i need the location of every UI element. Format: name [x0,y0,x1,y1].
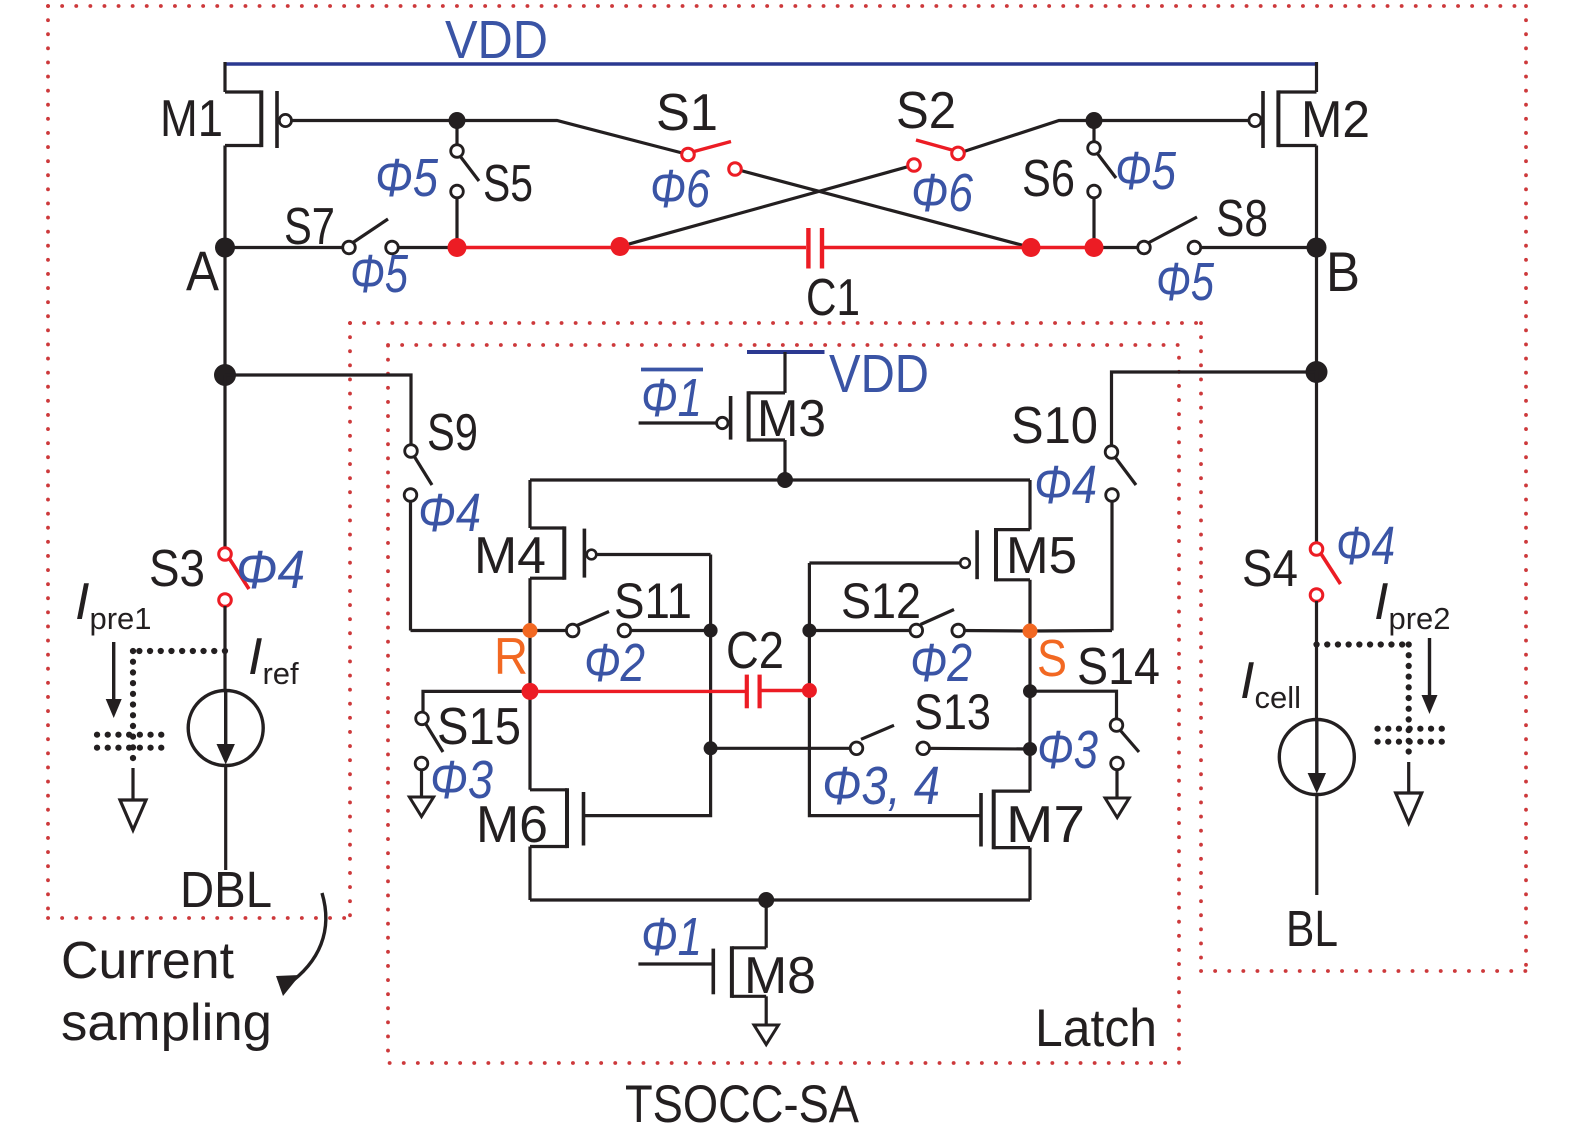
wire red C1 right segment [824,246,1094,250]
wire M1 source-drain column (VDD to node A to node A2) [223,62,226,92]
switch S7 [343,219,457,254]
outer dotted box right [1524,6,1528,971]
phi1 overline (M3 gate label bar) [641,368,703,372]
svg-text:Φ6: Φ6 [911,163,974,223]
wire S8 to node B [1094,246,1144,249]
switch S2 [908,140,965,171]
transistor M4 (PMOS, gate right) [530,480,711,631]
red node C1 left [611,237,630,256]
svg-text:Φ2: Φ2 [584,633,645,693]
svg-text:TSOCC-SA: TSOCC-SA [625,1075,860,1134]
switch S8 [1138,217,1317,254]
svg-text:Φ4: Φ4 [418,483,481,543]
capacitor C2 [747,675,760,709]
svg-text:Icell: Icell [1240,652,1301,715]
Ipre1 arrow [106,642,122,718]
svg-text:Φ4: Φ4 [1336,516,1395,576]
svg-text:VDD: VDD [829,344,929,404]
switch S1 [682,142,742,176]
transistor M2 (PMOS) [1094,90,1317,148]
svg-text:VDD: VDD [445,10,548,70]
red node S6 bottom [1085,238,1104,257]
node S12-M5gate junction [802,624,816,638]
switch S6 [1088,121,1116,248]
wire S15 branch from red R node [423,691,530,712]
transistor M5 (PMOS, gate left) [809,480,1030,631]
svg-text:Φ4: Φ4 [1034,455,1097,515]
BL box bottom [1201,969,1526,973]
wire Icell to BL [1315,795,1318,896]
svg-text:M2: M2 [1301,91,1370,149]
svg-text:Latch: Latch [1035,999,1157,1058]
wire node B2 down to S4 [1315,372,1318,543]
svg-text:R: R [494,628,528,686]
svg-text:M6: M6 [476,796,548,854]
node S11-M4gate junction [704,624,718,638]
svg-text:A: A [186,239,220,302]
wire S1 to C1 right node diagonal [735,169,1031,248]
node on M1 gate wire [449,112,466,129]
current sampling box right [348,323,352,918]
BL box left [1199,323,1203,971]
wire M5 gate column down to M7 gate [809,563,981,816]
svg-text:B: B [1326,240,1360,303]
node S14 branch junction [1023,684,1037,698]
switch S14 [1110,719,1139,798]
switch S12 [910,610,1030,637]
svg-text:S10: S10 [1011,397,1098,455]
transistor M1 (PMOS) [225,90,457,148]
Ipre2 arrow [1422,638,1438,714]
svg-text:S1: S1 [656,84,718,142]
ground M8 [754,1025,778,1045]
switch S11 [566,612,710,637]
svg-text:S7: S7 [284,198,335,256]
capacitor C1 [808,228,822,269]
current source Icell [1279,720,1354,795]
svg-text:S5: S5 [483,155,533,213]
wire red C2 right segment [761,689,809,692]
ground (dotted path left, open arrow) [120,768,146,830]
node A2 (A column junction) [214,364,236,386]
svg-text:Φ1: Φ1 [641,907,702,967]
wire node A2 to S9 [225,375,411,445]
wire S9 to node R [411,629,531,632]
svg-text:M7: M7 [1006,796,1085,854]
switch S3 (red) [219,548,249,607]
svg-text:S15: S15 [437,698,521,756]
switch S13 [850,725,1030,754]
node S13 right junction [1023,742,1037,756]
wire S13 row [711,747,857,750]
transistor M3 (PMOS) [639,352,785,480]
wire node B2 to S10 [1112,372,1317,446]
ground S14 [1105,798,1129,818]
wire S4 to Icell [1315,601,1318,721]
svg-text:Φ5: Φ5 [1115,141,1177,201]
node A [215,238,235,258]
svg-text:Current: Current [61,932,235,990]
svg-text:S13: S13 [914,684,991,740]
dotted current path left [97,651,225,766]
VDD bar for M3 (blue) [747,350,825,354]
svg-text:M8: M8 [744,947,816,1005]
svg-text:Iref: Iref [248,628,299,691]
outer dotted box left [46,6,50,918]
svg-text:M5: M5 [1006,527,1077,585]
svg-text:Φ6: Φ6 [650,159,711,219]
wire S14 branch from S column [1030,691,1117,719]
node R (orange) [523,623,538,638]
outer dotted box top [48,4,1526,8]
node M8 on bottom rail [758,892,774,908]
TSOCC-SA box top [350,321,1201,325]
svg-text:Φ1: Φ1 [641,368,702,428]
wire S3 to Iref [223,606,226,692]
svg-text:Φ5: Φ5 [350,244,409,304]
curved arrow (current sampling callout) [276,893,326,996]
switch S5 [451,121,479,248]
current sampling box bottom [48,916,350,920]
transistor M8 (NMOS, gate left) [638,900,766,1025]
svg-text:Ipre1: Ipre1 [75,573,152,636]
switch S10 [1105,446,1136,631]
svg-text:S8: S8 [1216,190,1268,248]
wire M4 gate column down to M6 gate [584,555,711,816]
node B [1307,238,1327,258]
wire node R to S11 [530,629,573,632]
ground (dotted path right, open arrow) [1396,762,1422,823]
svg-text:Φ4: Φ4 [236,540,305,600]
wire S12 node to S12 [809,629,916,632]
svg-text:S12: S12 [841,573,921,629]
switch S4 (red) [1310,543,1340,602]
svg-text:Ipre2: Ipre2 [1374,573,1451,636]
svg-text:S6: S6 [1022,150,1075,208]
WIRES-TOP [225,62,1317,375]
svg-text:S9: S9 [427,404,478,462]
wire node A2 down to S3 [223,375,226,548]
current source Iref [188,691,263,766]
ground S15 [409,797,433,817]
wire Iref to DBL [224,766,227,871]
svg-text:BL: BL [1286,900,1338,957]
wire node A to S7 [225,246,349,249]
svg-text:S: S [1037,630,1067,688]
Latch box [388,345,1179,1063]
red node R2 (C2 left) [522,683,539,700]
switch S9 [404,445,432,631]
svg-text:Φ5: Φ5 [1156,252,1215,312]
svg-text:S4: S4 [1242,540,1298,598]
svg-text:M4: M4 [474,527,546,585]
wire VDD rail (blue) [225,62,1317,66]
svg-text:C2: C2 [726,622,784,680]
transistor M7 (NMOS, gate left) [981,631,1030,900]
node S13 left junction [704,741,718,755]
wire M2 gate node to S2 diagonal [958,121,1094,154]
svg-text:Φ3, 4: Φ3, 4 [822,756,940,816]
transistor M6 (NMOS, gate right) [530,631,584,900]
svg-text:DBL: DBL [180,861,272,918]
svg-text:S2: S2 [896,82,956,140]
svg-text:S14: S14 [1077,638,1160,696]
wire latch top rail [530,478,1030,481]
svg-text:S3: S3 [149,540,205,598]
wire S2 to C1 left node diagonal [620,165,914,247]
svg-text:Φ5: Φ5 [375,148,439,208]
dotted current path right [1317,645,1444,761]
node B2 (B column junction) [1306,361,1328,383]
red node S5 bottom [448,238,467,257]
wire red C2 left segment (node R red to C2) [530,690,745,693]
node M3 drain on rail [777,472,793,488]
svg-text:S11: S11 [614,573,692,629]
wire latch bottom rail [530,898,1030,901]
svg-text:Φ3: Φ3 [1037,720,1098,780]
svg-text:M1: M1 [160,90,223,148]
node on M2 gate wire [1086,112,1103,129]
red node C2 right [802,683,817,698]
svg-text:M3: M3 [757,390,826,448]
wire S10 to node S [1030,629,1112,633]
switch S15 [415,712,443,797]
red node C1 right [1022,238,1041,257]
wire red C1 left segment [457,246,806,250]
svg-text:sampling: sampling [61,994,272,1052]
node S (orange) [1023,624,1038,639]
wire M1 gate node to S1 diagonal [457,121,688,155]
wire M2 source-drain column (VDD to node B to node B2) [1315,62,1318,92]
svg-text:C1: C1 [806,269,860,327]
